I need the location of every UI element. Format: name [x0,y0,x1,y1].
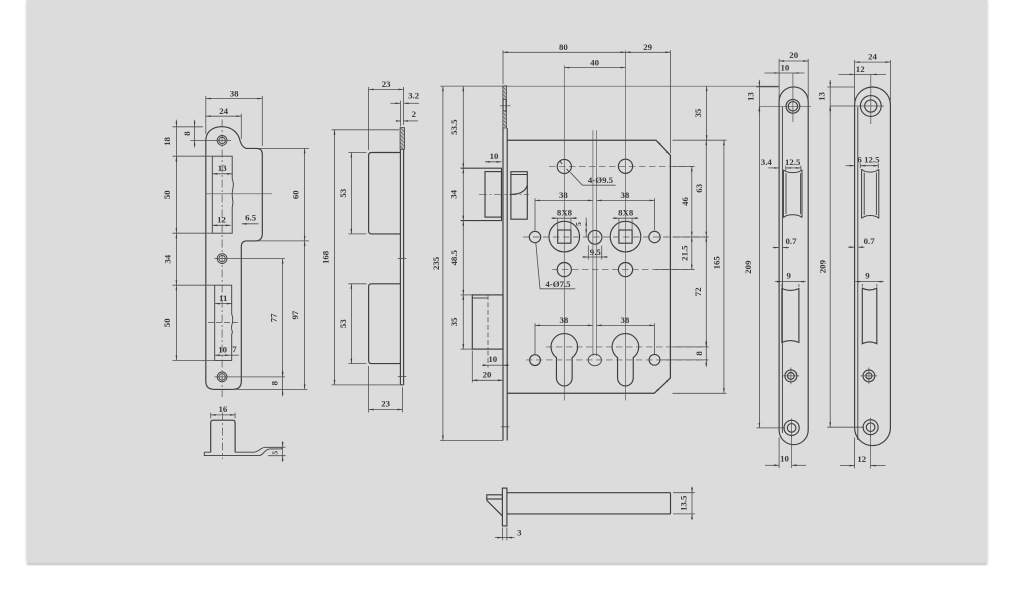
svg-text:6.5: 6.5 [245,212,257,222]
svg-text:11: 11 [219,293,227,303]
svg-text:209: 209 [818,259,828,273]
svg-text:38: 38 [230,88,239,98]
svg-text:3.4: 3.4 [761,157,773,167]
svg-text:13.5: 13.5 [679,495,689,511]
svg-text:168: 168 [320,250,330,264]
svg-text:50: 50 [162,190,172,199]
svg-text:6: 6 [857,155,862,165]
svg-text:10: 10 [780,454,789,464]
svg-text:209: 209 [743,260,753,274]
svg-text:9: 9 [786,271,791,281]
svg-text:53: 53 [338,319,348,328]
svg-text:34: 34 [448,189,458,198]
svg-text:38: 38 [621,315,630,325]
svg-text:18: 18 [162,137,172,146]
svg-text:8X8: 8X8 [557,208,573,218]
svg-text:77: 77 [269,313,279,322]
svg-text:60: 60 [290,190,300,199]
svg-text:9.5: 9.5 [590,247,602,257]
svg-text:13: 13 [816,92,826,101]
svg-text:12: 12 [857,454,866,464]
svg-text:48.5: 48.5 [449,250,459,266]
svg-text:38: 38 [560,315,569,325]
svg-text:10: 10 [218,344,227,354]
svg-text:0.7: 0.7 [786,236,798,246]
svg-text:9: 9 [865,271,870,281]
svg-text:3: 3 [517,527,522,537]
svg-text:8: 8 [269,380,279,385]
svg-text:40: 40 [590,57,599,67]
svg-text:10: 10 [781,62,790,72]
svg-text:53.5: 53.5 [449,119,459,135]
svg-text:46: 46 [680,197,690,206]
svg-text:35: 35 [449,317,459,326]
svg-text:165: 165 [712,256,722,270]
svg-text:8: 8 [694,351,704,356]
svg-text:16: 16 [219,404,228,414]
svg-text:38: 38 [559,190,568,200]
svg-text:12: 12 [217,215,226,225]
svg-text:53: 53 [338,188,348,197]
svg-text:50: 50 [162,318,172,327]
svg-text:63: 63 [694,183,704,192]
svg-text:29: 29 [643,42,652,52]
svg-text:235: 235 [431,256,441,270]
svg-text:10: 10 [490,151,499,161]
svg-text:8: 8 [182,131,192,136]
svg-text:13: 13 [218,163,227,173]
svg-text:8X8: 8X8 [618,208,634,218]
svg-text:13: 13 [746,92,756,101]
svg-text:38: 38 [621,190,630,200]
svg-text:35: 35 [693,108,703,117]
svg-text:23: 23 [381,399,390,409]
svg-text:12: 12 [856,64,865,74]
svg-text:24: 24 [219,106,228,116]
svg-text:20: 20 [789,50,798,60]
svg-text:4-Ø9.5: 4-Ø9.5 [588,175,614,185]
svg-text:5: 5 [574,222,583,226]
svg-text:3.2: 3.2 [408,91,420,101]
svg-text:5: 5 [270,451,279,455]
svg-text:21.5: 21.5 [679,245,689,261]
svg-text:10: 10 [488,354,497,364]
svg-text:12.5: 12.5 [785,157,801,167]
svg-text:7: 7 [232,344,237,354]
svg-text:0.7: 0.7 [864,236,876,246]
svg-text:72: 72 [693,287,703,296]
svg-text:12.5: 12.5 [864,155,880,165]
svg-text:4-Ø7.5: 4-Ø7.5 [545,279,571,289]
svg-text:2: 2 [412,109,417,119]
svg-text:34: 34 [163,254,173,263]
svg-text:23: 23 [382,79,391,89]
svg-text:20: 20 [483,369,492,379]
svg-text:24: 24 [868,51,877,61]
svg-text:97: 97 [290,310,300,319]
svg-text:80: 80 [559,42,568,52]
